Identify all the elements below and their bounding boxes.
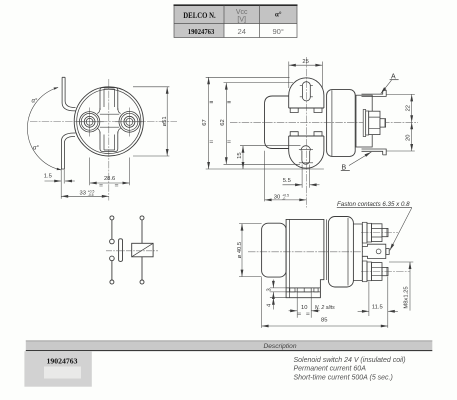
dim 15 ext line (240, 145, 301, 147)
dim 22 line (411, 94, 413, 122)
can side view (327, 90, 356, 157)
dim phi40.5 line (241, 224, 243, 277)
svg-text:-0.5: -0.5 (88, 193, 94, 197)
faston leader (390, 208, 412, 251)
svg-text:67: 67 (202, 119, 208, 125)
svg-text:22: 22 (405, 105, 411, 111)
coil box (132, 243, 153, 256)
mold waist upper flares (97, 108, 120, 114)
terminal right rings (115, 108, 144, 137)
dim phi51 line (166, 87, 168, 156)
centerline horizontal bottom view (248, 251, 363, 253)
svg-text:Permanent current 60A: Permanent current 60A (294, 366, 367, 373)
flange slit right (314, 288, 318, 292)
bottom stud thread (382, 267, 388, 275)
can lip line (288, 219, 290, 297)
bottom stud hex (372, 263, 383, 281)
lower bolt slot (302, 151, 310, 165)
svg-text:90°: 90° (272, 27, 283, 36)
contact fixed bottom (110, 256, 115, 261)
svg-text:α°: α° (32, 99, 38, 105)
bracket upper tab edge-on (62, 77, 76, 111)
dim 85 line (262, 325, 388, 327)
svg-text:85: 85 (321, 317, 327, 323)
svg-text:20: 20 (405, 135, 411, 141)
bottom stud plate (362, 261, 367, 282)
svg-text:24: 24 (237, 27, 245, 36)
solenoid body inner circle (77, 89, 141, 153)
dim 30 ext line (264, 151, 266, 202)
ring line (325, 219, 327, 280)
svg-text:Description: Description (264, 343, 297, 350)
terminal left rings (76, 108, 104, 137)
dim 3 4 leader line (272, 280, 274, 288)
centerline horizontal side view (230, 121, 418, 123)
faston bracket (362, 244, 386, 258)
dim 5.5 ext lines (301, 165, 303, 188)
top stud hex (372, 224, 383, 242)
part number box (24, 351, 91, 387)
table column divider 2 (259, 6, 261, 38)
solenoid body outer circle (74, 87, 143, 156)
coil wire bottom (141, 257, 143, 280)
dim 67 ext lines (206, 76, 290, 78)
table column divider 1 (223, 6, 225, 38)
svg-text:DELCO N.: DELCO N. (183, 11, 216, 20)
upper tab feet (290, 108, 322, 113)
faston hole (376, 249, 381, 254)
dim 62 line (225, 83, 227, 165)
svg-text:28.6: 28.6 (104, 176, 115, 182)
part number box inner panel (44, 367, 81, 379)
top stud washer (367, 223, 372, 242)
table part-number cell fill (174, 24, 224, 38)
dim 5.5 arrows (283, 184, 303, 186)
cover body (328, 217, 353, 288)
coil terminal top (140, 216, 144, 220)
actuation link dashed (106, 250, 158, 252)
coil diagonal (132, 243, 153, 256)
svg-text:α°: α° (33, 146, 39, 152)
dim 3 4 ext lines (270, 288, 286, 298)
arc arrow top (54, 87, 59, 90)
table outer border (174, 6, 297, 38)
moving contact bar (119, 239, 123, 262)
contact wire bottom (111, 261, 113, 280)
equal marks 10 (298, 313, 310, 314)
rear cap (262, 223, 287, 277)
dim 11.5 ext lines (368, 282, 370, 317)
faston tab (386, 249, 389, 255)
stud hex nut (369, 111, 380, 134)
upper bolt wing ticks (300, 86, 313, 97)
svg-text:62: 62 (220, 119, 226, 125)
svg-text:30: 30 (274, 194, 280, 200)
upper tab bolt slot (302, 82, 310, 101)
contact wire top (111, 220, 113, 239)
flange slits middle (297, 288, 311, 292)
centerline vertical tabs (305, 57, 307, 208)
dim 25 line (289, 64, 323, 66)
mold top tab slot (104, 89, 115, 107)
description header bar (26, 341, 433, 351)
svg-text:11.5: 11.5 (372, 305, 383, 311)
stud base plate (363, 110, 366, 137)
svg-text:-0: -0 (282, 197, 285, 201)
svg-text:33: 33 (80, 190, 86, 196)
dim phi51 extension lines (133, 86, 169, 88)
stud thread (380, 119, 386, 127)
arc arrow bottom (57, 168, 62, 170)
svg-text:Faston contacts 6.35 x 0.8: Faston contacts 6.35 x 0.8 (337, 201, 410, 208)
centerline top stud (361, 232, 398, 234)
equal marks 67 62 (210, 101, 231, 142)
centerline vertical front view (108, 79, 110, 201)
svg-text:M8x1.25: M8x1.25 (403, 286, 409, 308)
stud washer (366, 111, 369, 135)
dim 20 line (411, 122, 413, 151)
terminal tab A (362, 90, 387, 96)
cover side view (356, 95, 372, 147)
dim 85 ext line (261, 277, 263, 328)
svg-text:[V]: [V] (237, 17, 246, 24)
top stud thread (382, 228, 388, 236)
solenoid body side outline (265, 96, 289, 149)
dim 25 ext lines (288, 62, 290, 89)
centerline horizontal front view (30, 121, 177, 123)
lower bolt head (301, 146, 311, 151)
dim 67 line (208, 77, 210, 169)
contact terminal top (110, 216, 114, 220)
centerline bottom stud (361, 270, 410, 272)
svg-text:B: B (342, 164, 347, 171)
coil terminal bottom (140, 280, 144, 284)
coil wire top (141, 220, 143, 243)
svg-text:ø 40.5: ø 40.5 (237, 242, 243, 258)
contact terminal bottom (110, 280, 114, 284)
dim 30 line (265, 199, 307, 201)
alpha swing arc (27, 88, 61, 171)
svg-text:15: 15 (237, 152, 243, 158)
dim 33 line (61, 195, 109, 197)
flange slit left (290, 288, 295, 292)
upper mounting tab dome (289, 78, 324, 108)
dim 11.5 arrows (358, 310, 369, 312)
svg-text:N. 2 slits: N. 2 slits (315, 305, 335, 311)
table header row fill (174, 6, 297, 24)
bracket lower tab edge-on (61, 133, 75, 169)
table top border thick (174, 4, 298, 6)
svg-text:Short-time current 500A (5 sec: Short-time current 500A (5 sec.) (294, 374, 393, 381)
svg-text:Vcc: Vcc (236, 9, 248, 16)
lower tab feet (290, 132, 322, 136)
mold bottom tab slot (104, 135, 115, 151)
leader B (349, 152, 371, 166)
dim 10 arrows (289, 310, 298, 312)
svg-text:5.5: 5.5 (283, 178, 291, 184)
svg-text:A: A (391, 73, 396, 80)
svg-text:ø51: ø51 (162, 116, 168, 126)
dim 22 20 ext lines (387, 93, 415, 95)
mold waist lower flares (97, 128, 120, 133)
faston label underline (337, 207, 412, 209)
dim 28.6 extension lines (89, 158, 91, 186)
bottom stud washer (367, 262, 372, 281)
svg-text:19024763: 19024763 (47, 356, 78, 365)
dim 28.6 line (90, 182, 130, 184)
dim 15 line (242, 146, 244, 169)
terminal board (353, 224, 362, 281)
svg-text:α°: α° (275, 10, 282, 18)
svg-text:3: 3 (267, 288, 273, 291)
dim 10 ext lines (296, 292, 298, 318)
dim phi40.5 ext lines (239, 223, 262, 225)
dim 1.5 arrows (45, 180, 62, 182)
dim 62 ext lines (224, 82, 294, 84)
svg-text:1.5: 1.5 (44, 174, 52, 180)
svg-text:Solenoid switch 24 V (insulate: Solenoid switch 24 V (insulated coil) (294, 357, 406, 364)
mold top tab outer (100, 88, 118, 110)
svg-text:25: 25 (302, 59, 308, 65)
svg-text:10: 10 (301, 305, 307, 311)
bracket ext line short (63, 169, 65, 184)
lower bolt wing ticks (299, 150, 313, 163)
flange lines (286, 288, 320, 292)
svg-text:19024763: 19024763 (188, 27, 215, 36)
mold bottom tab outer (100, 132, 118, 152)
cover inner line (347, 218, 349, 286)
top stud plate (362, 222, 367, 243)
contact fixed top (110, 239, 115, 244)
table row divider (174, 23, 297, 25)
can crimp line (331, 90, 333, 156)
equal marks 28.6 (99, 185, 118, 186)
M8 leader (409, 262, 411, 311)
mold cross band (100, 114, 119, 127)
leader A (381, 80, 392, 93)
lower mounting tab dome (289, 136, 324, 168)
terminal tab B (362, 149, 387, 155)
can body (286, 219, 324, 297)
M8 ext line (389, 261, 413, 263)
